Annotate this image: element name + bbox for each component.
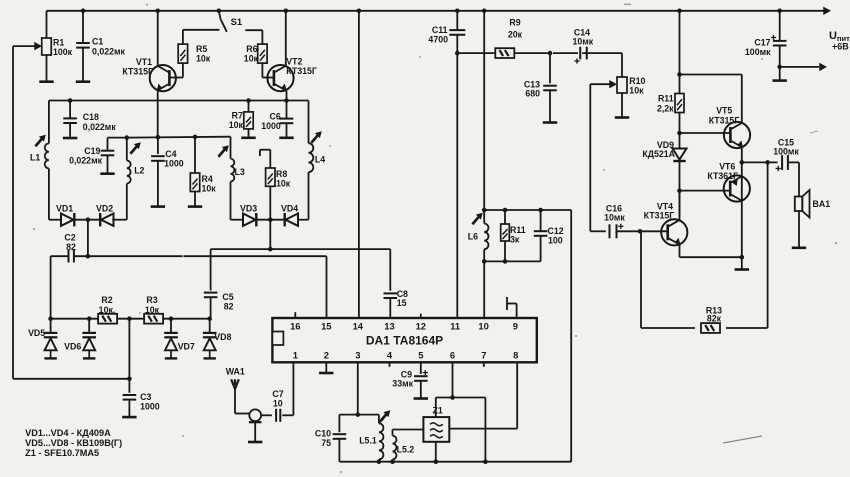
wire Z1 bottom bbox=[435, 442, 437, 462]
svg-text:0,022мк: 0,022мк bbox=[83, 122, 117, 132]
capacitor C18 bbox=[69, 101, 71, 119]
wire R2R3 junction to C3 bbox=[128, 319, 130, 379]
wire VT5 collector branch bbox=[680, 74, 742, 76]
resistor R7 bbox=[248, 101, 250, 112]
svg-text:КД521А: КД521А bbox=[642, 149, 675, 159]
svg-text:10: 10 bbox=[478, 320, 488, 331]
svg-text:R6: R6 bbox=[246, 44, 257, 54]
wire pin6 node down bbox=[484, 398, 486, 462]
svg-text:L4: L4 bbox=[315, 155, 325, 165]
svg-text:1000: 1000 bbox=[164, 159, 184, 169]
resistor R8 bbox=[269, 186, 271, 219]
wire VT5 emitter bbox=[741, 147, 743, 162]
svg-text:4: 4 bbox=[387, 349, 393, 360]
wire L1 to VD1 bbox=[48, 168, 50, 219]
svg-text:L5.2: L5.2 bbox=[397, 445, 415, 455]
svg-text:33мк: 33мк bbox=[392, 379, 413, 389]
svg-text:DA1 ТА8164Р: DA1 ТА8164Р bbox=[366, 333, 443, 347]
jack X1 bbox=[249, 409, 261, 421]
varicap VD7 bbox=[170, 319, 172, 332]
wire VT4 emitter bbox=[679, 244, 681, 258]
wire output line bbox=[742, 161, 778, 163]
svg-text:R5: R5 bbox=[196, 44, 207, 54]
wire pin14 to rail bbox=[358, 11, 360, 318]
svg-text:10к: 10к bbox=[229, 120, 244, 130]
wire R9 line bbox=[457, 52, 495, 54]
wire L5 top line bbox=[339, 414, 379, 416]
svg-text:Z1 - SFE10.7МА5: Z1 - SFE10.7МА5 bbox=[25, 448, 99, 458]
wire Z1 right to pin8 bbox=[449, 428, 517, 430]
svg-text:VD1: VD1 bbox=[56, 204, 73, 214]
wire L6 tank bottom line bbox=[484, 260, 540, 262]
wire VT1 emitter line bbox=[127, 136, 231, 139]
inductor L1 bbox=[45, 143, 49, 168]
svg-text:C3: C3 bbox=[140, 392, 151, 402]
svg-text:9: 9 bbox=[513, 320, 518, 331]
varicap VD8 bbox=[209, 319, 211, 332]
svg-text:3: 3 bbox=[355, 349, 360, 360]
wire pin1 to C7 bbox=[292, 362, 294, 415]
svg-text:C12: C12 bbox=[548, 226, 564, 236]
transistor VT1 bbox=[150, 65, 176, 91]
svg-text:VD8: VD8 bbox=[214, 332, 231, 342]
svg-text:1000: 1000 bbox=[261, 121, 281, 131]
svg-text:R4: R4 bbox=[202, 174, 213, 184]
svg-text:100к: 100к bbox=[53, 47, 73, 57]
capacitor C19 bbox=[108, 137, 127, 139]
wire VT5-VT6 output column bbox=[741, 162, 743, 257]
svg-text:680: 680 bbox=[525, 89, 540, 99]
resistor R9 bbox=[495, 48, 514, 58]
svg-text:L2: L2 bbox=[134, 166, 144, 176]
svg-text:L3: L3 bbox=[235, 167, 245, 177]
wire line A to C8 bbox=[389, 249, 391, 291]
svg-text:КТ315Г: КТ315Г bbox=[122, 67, 153, 77]
svg-text:10к: 10к bbox=[145, 305, 160, 315]
wire speaker gnd bbox=[798, 211, 800, 247]
svg-text:VT5: VT5 bbox=[716, 106, 732, 116]
ground VT4/VT6 bbox=[741, 257, 743, 268]
wire tank rail right edge bbox=[308, 101, 310, 144]
capacitor C2 bbox=[51, 255, 69, 257]
svg-text:VT2: VT2 bbox=[286, 57, 302, 67]
svg-text:КТ361Г: КТ361Г bbox=[707, 171, 738, 181]
inductor L6 bbox=[472, 216, 479, 224]
wire VT2 collector bbox=[285, 11, 287, 66]
transistor VT2 bbox=[267, 65, 293, 91]
capacitor C8 bbox=[384, 292, 398, 294]
IC pin stubs bbox=[294, 312, 296, 318]
svg-text:0,022мк: 0,022мк bbox=[69, 156, 103, 166]
inductor L3 bbox=[230, 137, 232, 159]
svg-text:C10: C10 bbox=[315, 429, 331, 439]
svg-text:100мк: 100мк bbox=[745, 47, 771, 57]
svg-text:10мк: 10мк bbox=[572, 36, 593, 46]
varicap VD5 bbox=[50, 319, 52, 332]
svg-text:12: 12 bbox=[416, 320, 426, 331]
wire VT6 base branch bbox=[680, 190, 731, 192]
svg-text:VD3: VD3 bbox=[240, 204, 257, 214]
wire tank top to L5 bottom bbox=[570, 210, 572, 462]
svg-text:8: 8 bbox=[513, 349, 518, 360]
svg-text:6: 6 bbox=[450, 349, 455, 360]
wire VT1 collector bbox=[157, 11, 159, 66]
resistor R3 bbox=[144, 314, 163, 324]
wire tank rail left edge bbox=[48, 101, 50, 144]
resistor R1 bbox=[46, 11, 48, 38]
svg-text:L1: L1 bbox=[30, 153, 40, 163]
svg-text:R9: R9 bbox=[509, 18, 520, 28]
wire VT2 emitter bbox=[286, 91, 288, 119]
svg-text:C19: C19 bbox=[84, 146, 100, 156]
svg-text:10к: 10к bbox=[202, 184, 217, 194]
wire VT4 collector bbox=[679, 191, 681, 221]
svg-text:14: 14 bbox=[353, 320, 364, 331]
inductor L5.1 bbox=[378, 415, 380, 424]
svg-text:15: 15 bbox=[397, 298, 407, 308]
diode VD1 bbox=[61, 214, 74, 226]
svg-text:VD1...VD4 - КД409А: VD1...VD4 - КД409А bbox=[25, 428, 111, 438]
inductor L2 bbox=[126, 184, 128, 220]
wire varicap row bbox=[51, 318, 98, 320]
diode VD4 bbox=[286, 214, 299, 226]
capacitor C9 bbox=[420, 362, 422, 374]
resistor R11 2.2k bbox=[675, 94, 684, 113]
transistor VT4 bbox=[661, 219, 687, 245]
svg-text:10к: 10к bbox=[196, 54, 211, 64]
wire VT4 emitter to gnd line bbox=[680, 256, 742, 258]
svg-text:C18: C18 bbox=[83, 112, 99, 122]
svg-text:11: 11 bbox=[450, 320, 460, 331]
svg-text:WA1: WA1 bbox=[226, 367, 245, 377]
svg-text:100мк: 100мк bbox=[773, 146, 799, 156]
svg-text:10к: 10к bbox=[629, 86, 644, 96]
svg-text:Z1: Z1 bbox=[432, 406, 442, 416]
resistor R4 bbox=[194, 137, 196, 173]
svg-text:1000: 1000 bbox=[140, 402, 160, 412]
svg-text:15: 15 bbox=[321, 320, 331, 331]
wire to speaker bbox=[798, 162, 800, 196]
inductor L4 bbox=[309, 143, 314, 172]
inductor L5.2 bbox=[392, 430, 394, 436]
svg-text:R3: R3 bbox=[146, 295, 157, 305]
wire out arrow bbox=[780, 66, 819, 68]
resistor R5 bbox=[178, 44, 187, 63]
wire L5 bottom line bbox=[339, 461, 571, 463]
svg-text:10к: 10к bbox=[276, 178, 291, 188]
diode VD3 bbox=[243, 214, 256, 226]
svg-text:C4: C4 bbox=[165, 149, 176, 159]
wire C2 left drop bbox=[50, 256, 52, 319]
wire pin9 hook bbox=[516, 304, 518, 319]
capacitor C3 bbox=[123, 394, 137, 396]
transistor VT5 bbox=[724, 122, 750, 148]
wire VD1-VD2 line bbox=[49, 219, 61, 221]
capacitor C7 bbox=[275, 409, 277, 422]
capacitor C11 bbox=[456, 11, 458, 30]
resistor R13 bbox=[701, 323, 720, 333]
resistor R2 bbox=[98, 314, 117, 324]
speaker BA1 bbox=[795, 197, 803, 212]
svg-text:R10: R10 bbox=[629, 76, 645, 86]
svg-text:S1: S1 bbox=[231, 17, 243, 28]
svg-text:10к.: 10к. bbox=[99, 305, 116, 315]
wire tank rail bbox=[49, 100, 309, 102]
svg-text:82: 82 bbox=[224, 302, 234, 312]
resistor R11 3k bbox=[504, 210, 506, 224]
capacitor C5 bbox=[204, 292, 218, 294]
svg-text:КТ315Г: КТ315Г bbox=[644, 211, 675, 221]
svg-text:7: 7 bbox=[481, 349, 486, 360]
capacitor C6 bbox=[280, 118, 294, 120]
svg-text:C1: C1 bbox=[92, 36, 103, 46]
svg-text:10: 10 bbox=[273, 399, 283, 409]
wire wiper to C16 bbox=[589, 84, 591, 231]
wire R13 feedback bbox=[767, 162, 769, 328]
wire VT5 base branch bbox=[680, 132, 731, 134]
svg-text:КТ315Г: КТ315Г bbox=[709, 115, 740, 125]
svg-text:VT1: VT1 bbox=[136, 57, 152, 67]
wire pin6 down bbox=[452, 362, 454, 397]
svg-text:5: 5 bbox=[418, 349, 423, 360]
svg-text:13: 13 bbox=[384, 320, 394, 331]
svg-text:10мк: 10мк bbox=[604, 213, 625, 223]
capacitor C4 bbox=[157, 137, 159, 154]
wire VT1 base to R5 bbox=[169, 77, 183, 79]
svg-text:C2: C2 bbox=[64, 233, 75, 243]
wire bottom-left line bbox=[13, 378, 129, 380]
svg-text:R1: R1 bbox=[53, 38, 64, 48]
svg-text:VD5...VD8 - КВ109В(Г): VD5...VD8 - КВ109В(Г) bbox=[25, 438, 122, 448]
capacitor C1 bbox=[82, 11, 84, 43]
svg-text:R11: R11 bbox=[658, 94, 674, 104]
wire pin3 down bbox=[357, 362, 359, 414]
switch S1 bbox=[183, 29, 220, 31]
IC DA1 TA8164P body bbox=[272, 318, 536, 362]
svg-text:82: 82 bbox=[66, 242, 76, 252]
capacitor C16 bbox=[590, 230, 606, 232]
wire VT1 emitter bbox=[157, 91, 159, 136]
wire L5.2 to Z1 bbox=[393, 429, 424, 431]
svg-text:0,022мк: 0,022мк bbox=[92, 46, 126, 56]
svg-text:100: 100 bbox=[548, 236, 563, 246]
wire R1 wiper arrow bbox=[13, 45, 38, 47]
wire top +6V rail bbox=[47, 10, 825, 12]
ground pin2 bbox=[325, 362, 327, 372]
svg-text:VD2: VD2 bbox=[96, 204, 113, 214]
wire R6 to VT2 base bbox=[261, 63, 263, 78]
svg-text:VD4: VD4 bbox=[281, 204, 298, 214]
svg-text:82к: 82к bbox=[707, 314, 722, 324]
svg-text:C5: C5 bbox=[222, 292, 233, 302]
capacitor C12 bbox=[540, 210, 542, 231]
capacitor C17 bbox=[779, 11, 781, 40]
diode VD9 bbox=[679, 133, 681, 149]
svg-text:L6: L6 bbox=[468, 232, 478, 242]
svg-text:10к: 10к bbox=[244, 54, 259, 64]
svg-text:R2: R2 bbox=[101, 295, 112, 305]
svg-text:C6: C6 bbox=[270, 112, 281, 122]
wire L6 tank top line bbox=[484, 209, 571, 211]
filter Z1 bbox=[423, 417, 449, 442]
svg-text:+6В: +6В bbox=[832, 42, 849, 52]
svg-text:2: 2 bbox=[324, 349, 329, 360]
svg-text:16: 16 bbox=[290, 320, 300, 331]
svg-text:VD7: VD7 bbox=[178, 342, 195, 352]
varicap VD6 bbox=[88, 319, 90, 332]
svg-text:VD6: VD6 bbox=[64, 342, 81, 352]
wire VD3-VD4 line bbox=[231, 219, 244, 221]
capacitor C14 bbox=[579, 47, 581, 60]
resistor R6 bbox=[258, 44, 267, 63]
terminal bar C17 bbox=[773, 79, 787, 82]
wire line A bbox=[269, 220, 271, 249]
capacitor C13 bbox=[549, 53, 551, 83]
wire Z1 top to pin6 node bbox=[435, 398, 437, 418]
svg-text:VD5: VD5 bbox=[28, 328, 45, 338]
wire left column bbox=[12, 46, 14, 379]
svg-text:2,2к: 2,2к bbox=[657, 103, 674, 113]
svg-text:VT6: VT6 bbox=[719, 162, 735, 172]
wire C2 drop bbox=[87, 220, 89, 257]
svg-text:20к: 20к bbox=[508, 29, 523, 39]
capacitor C10 bbox=[333, 433, 347, 435]
svg-text:4700: 4700 bbox=[428, 34, 448, 44]
wire V+ chain bbox=[679, 11, 681, 94]
capacitor C15 bbox=[781, 155, 783, 170]
svg-text:BA1: BA1 bbox=[813, 199, 831, 209]
node rail junction dots bbox=[81, 9, 86, 14]
resistor R10 bbox=[621, 53, 623, 77]
diode VD2 bbox=[101, 214, 114, 226]
svg-text:R11: R11 bbox=[510, 225, 526, 235]
wire C2 line to pin15 bbox=[74, 255, 327, 257]
svg-text:1: 1 bbox=[293, 349, 298, 360]
svg-text:3к: 3к bbox=[510, 235, 520, 245]
transistor VT6 bbox=[724, 175, 750, 201]
wire L6 vertical bbox=[483, 11, 485, 210]
svg-text:КТ315Г: КТ315Г bbox=[286, 66, 317, 76]
svg-text:L5.1: L5.1 bbox=[359, 435, 377, 445]
wire R10 wiper bbox=[590, 83, 612, 85]
svg-text:75: 75 bbox=[321, 438, 331, 448]
